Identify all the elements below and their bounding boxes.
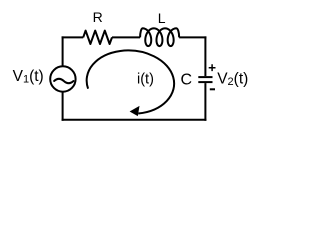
resistor R [83, 31, 112, 44]
wire left vertical top segment [62, 36, 64, 66]
svg-text:V1(t): V1(t) [13, 68, 44, 85]
wire L to top-right corner [179, 36, 206, 38]
wire left vertical bottom segment [62, 91, 64, 120]
svg-text:L: L [158, 10, 166, 26]
voltage source V1 circle [50, 66, 75, 91]
wire between R and L [112, 36, 140, 38]
wire right vertical lower segment [204, 83, 206, 121]
svg-text:i(t): i(t) [137, 71, 154, 87]
current loop arrow i(t) arrowhead [130, 106, 140, 116]
capacitor C top plate [198, 76, 212, 78]
inductor L [140, 28, 179, 46]
svg-text:V2(t): V2(t) [217, 70, 248, 87]
capacitor C bottom plate [198, 81, 212, 83]
capacitor polarity plus sign [209, 64, 216, 71]
wire top left segment [62, 36, 84, 38]
svg-text:C: C [181, 71, 193, 88]
svg-text:R: R [93, 9, 103, 25]
capacitor polarity minus sign [210, 88, 215, 90]
voltage source V1 sine symbol [54, 79, 73, 83]
current loop arrow i(t) arc [87, 50, 174, 113]
bottom wire [62, 119, 207, 121]
wire right vertical upper segment [204, 36, 206, 76]
